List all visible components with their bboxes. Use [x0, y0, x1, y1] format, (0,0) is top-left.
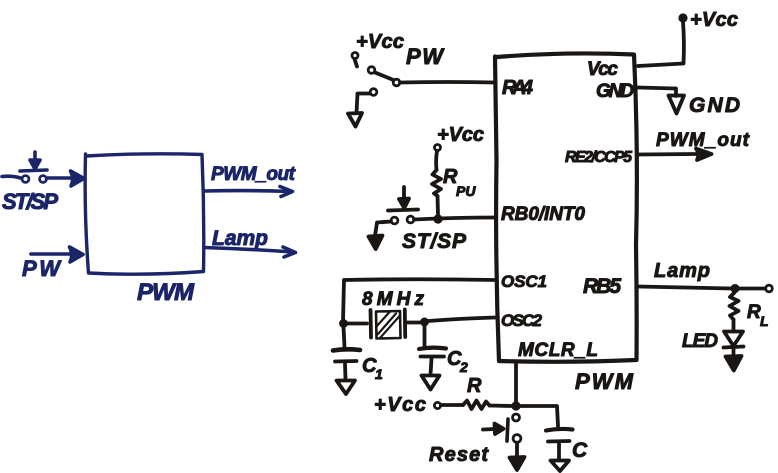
wire: throw2 to ground [357, 94, 371, 114]
wire: GND pin out [638, 88, 676, 97]
resistor R zigzag [463, 401, 490, 410]
wire: +Vcc to resistor R [441, 403, 463, 407]
node: +Vcc terminal circle [352, 53, 358, 59]
svg-text:PW: PW [22, 256, 62, 281]
label C2 [447, 348, 468, 375]
svg-text:PWM: PWM [137, 279, 195, 306]
IC U1 (PWM microcontroller) box [495, 53, 637, 361]
LED D1 [724, 320, 744, 357]
svg-text:2: 2 [459, 359, 468, 375]
svg-text:MCLR_L: MCLR_L [518, 340, 598, 361]
svg-text:R: R [467, 375, 482, 397]
label C1 [362, 355, 383, 382]
pushbutton Reset arrow [483, 424, 504, 435]
wire: resistor to junction [490, 404, 513, 408]
wire: +Vcc to VCC pin [638, 22, 684, 67]
switch SPDT (PW) throw1 circle [368, 67, 375, 74]
svg-text:LED: LED [682, 331, 718, 352]
svg-text:PWM: PWM [575, 369, 634, 394]
label R_PU [443, 166, 476, 199]
svg-text:PU: PU [456, 183, 476, 199]
wire: left lead of SW1 [2, 176, 21, 178]
svg-text:OSC2: OSC2 [501, 311, 543, 330]
wire: RB5 Lamp line [638, 287, 765, 289]
wire: +Vcc to R_PU [434, 151, 439, 170]
wire: OSC1 to crystal [343, 279, 495, 322]
svg-text:+Vcc: +Vcc [356, 31, 404, 53]
ground (C1) open arrow [337, 381, 356, 395]
ground (SW2) solid arrow [369, 236, 383, 250]
pushbutton SW1 contact circles [22, 176, 46, 183]
svg-text:RE2/CCP5: RE2/CCP5 [565, 149, 633, 166]
switch SPDT common circle [393, 79, 400, 86]
svg-text:+Vcc: +Vcc [437, 124, 484, 146]
node: junction dot RB0 [434, 215, 442, 223]
pushbutton SW2 (ST/SP) arrow [399, 187, 409, 208]
svg-text:GND: GND [689, 94, 740, 117]
capacitor C [546, 429, 573, 460]
resistor R_L zigzag [730, 293, 739, 320]
capacitor C1 [333, 327, 360, 380]
ground (GND pin) open arrow [669, 96, 685, 114]
ground (PW switch) open arrow [348, 113, 362, 127]
wire: Lamp output with arrowhead [204, 247, 296, 257]
node: +Vcc terminal circle (reset) [434, 402, 440, 408]
svg-text:RB5: RB5 [583, 275, 621, 298]
block PWM box [85, 154, 204, 274]
node: junction dot MCLR [512, 402, 520, 410]
switch SPDT throw2 circle [370, 89, 377, 96]
svg-text:R: R [747, 302, 761, 323]
svg-text:ST/SP: ST/SP [2, 189, 58, 214]
svg-text:PWM_out: PWM_out [656, 130, 750, 151]
label R_L [747, 302, 769, 329]
svg-text:RA4: RA4 [502, 77, 533, 99]
svg-text:8MHz: 8MHz [362, 289, 425, 310]
capacitor C2 [419, 326, 446, 375]
svg-text:PWM_out: PWM_out [211, 164, 296, 185]
svg-text:OSC1: OSC1 [501, 272, 547, 291]
svg-text:C: C [572, 439, 588, 462]
pushbutton SW2 bar [388, 210, 418, 211]
wire: PW input arrow [31, 247, 83, 262]
svg-text:RB0/INT0: RB0/INT0 [501, 204, 585, 225]
svg-text:ST/SP: ST/SP [402, 230, 467, 253]
ground (Reset) solid arrow [510, 457, 525, 470]
svg-text:Lamp: Lamp [654, 260, 710, 282]
node: +Vcc terminal circle (pull-up) [435, 145, 441, 151]
wire: crystal to OSC2 [428, 318, 495, 322]
node: Lamp junction dot [731, 285, 739, 293]
svg-text:+Vcc: +Vcc [374, 394, 426, 416]
svg-text:PW: PW [406, 44, 445, 69]
wire: PWM_out output with arrowhead [204, 187, 293, 197]
pushbutton Reset circles [513, 414, 521, 442]
wire: +Vcc to switch throw1 [355, 59, 358, 67]
node: +Vcc dot (top right) [679, 14, 686, 21]
svg-text:Vcc: Vcc [587, 59, 618, 80]
resistor R_PU zigzag [432, 170, 441, 196]
wire: MCLR_L down [514, 362, 518, 404]
wire: Reset to ground [515, 444, 519, 458]
ground (C) open arrow [551, 461, 570, 472]
node: crystal right junction dot [421, 318, 428, 325]
ground (C2) open arrow [422, 376, 440, 390]
svg-text:+Vcc: +Vcc [690, 9, 738, 31]
svg-text:Reset: Reset [429, 444, 489, 466]
svg-text:L: L [760, 313, 769, 329]
svg-text:1: 1 [375, 366, 383, 382]
pushbutton SW2 contact circles [391, 216, 414, 224]
wire: switch common to RA4 [400, 80, 495, 84]
node: crystal left junction dot [340, 320, 347, 327]
pushbutton SW1 bar [20, 170, 47, 171]
pushbutton Reset actuator bar [507, 419, 508, 441]
wire: button to RB0 pin [414, 218, 495, 220]
wire: SW1 to PWM block with arrowhead [48, 171, 85, 186]
ground (LED) solid arrow [726, 356, 742, 371]
node: Lamp open terminal [766, 285, 773, 292]
pushbutton SW1 (ST/SP) actuator arrow [30, 152, 40, 169]
wire: R_PU to junction [436, 196, 440, 215]
wire: RE2/CCP5 PWM_out arrow [638, 149, 712, 161]
crystal X1 [347, 310, 421, 339]
switch SPDT lever [375, 73, 394, 81]
svg-text:GND: GND [596, 81, 634, 102]
wire: SW2 to ground [375, 222, 391, 237]
wire: junction to capacitor C [520, 406, 558, 426]
